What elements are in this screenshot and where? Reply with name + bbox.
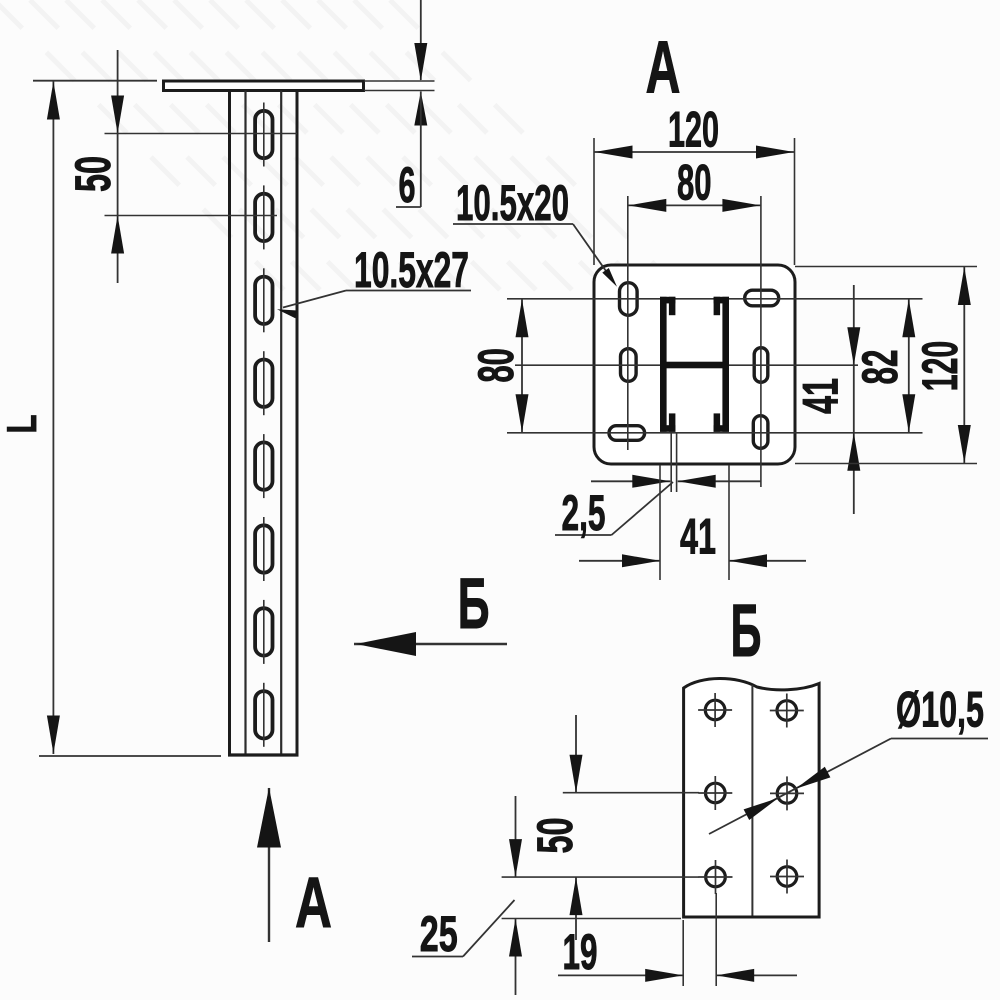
front view: 8 oblong slots 10.5x27	[255, 103, 272, 747]
dimension text 120 right	[911, 341, 968, 392]
view Б: six holes Ø10,5 with center marks	[698, 693, 804, 894]
svg-text:50: 50	[64, 156, 121, 192]
dimension 25 (bottom hole offset) with leader	[412, 796, 522, 995]
svg-text:10.5x20: 10.5x20	[456, 174, 569, 231]
view Б title	[731, 589, 762, 672]
label text 10.5x27	[354, 241, 469, 298]
svg-text:120: 120	[668, 101, 719, 158]
dimension 2,5 (wall thickness) with leader	[555, 433, 761, 535]
label text 10.5x20	[456, 174, 569, 231]
dimension 6 (plate thickness)	[364, 0, 435, 207]
dimension text 41 bottom	[680, 508, 716, 565]
dimension 82 (profile height)	[902, 299, 915, 433]
front view: vertical strut column	[228, 91, 299, 756]
dimension 120 (plate width, top)	[594, 138, 795, 265]
svg-text:82: 82	[851, 350, 908, 385]
label 10.5x27 leader	[277, 291, 471, 319]
dimension text 41 right	[792, 378, 849, 414]
svg-text:6: 6	[399, 156, 416, 213]
svg-text:19: 19	[563, 923, 598, 980]
dimension label L	[0, 415, 45, 434]
view A title	[646, 26, 681, 109]
svg-text:10.5x27: 10.5x27	[354, 241, 469, 298]
svg-text:L: L	[0, 415, 45, 434]
svg-text:41: 41	[792, 378, 849, 414]
section arrow Б (view direction)	[354, 632, 507, 656]
dimension text 80 left	[467, 348, 524, 383]
svg-text:Б: Б	[458, 565, 490, 644]
svg-text:А: А	[295, 864, 332, 943]
dimension text 50 (view Б)	[526, 818, 583, 854]
view Б: side plate outline with break line	[684, 678, 820, 917]
view A: mounting plate 120x120 outline	[594, 265, 795, 464]
svg-text:120: 120	[911, 341, 968, 392]
svg-text:80: 80	[677, 154, 712, 211]
section arrow А (view direction)	[257, 788, 281, 943]
dimension text 6	[399, 156, 416, 213]
dimension text Ø10,5	[896, 681, 984, 738]
view A: strut channel cross-section (welded profile)	[660, 297, 729, 432]
dimension 41 (profile width, bottom)	[579, 465, 806, 580]
dimension 19 (hole edge distance)	[558, 893, 797, 986]
dimension 50 (slot pitch, front view)	[105, 50, 298, 283]
dimension text 2,5	[562, 484, 606, 541]
dimension text 19	[563, 923, 598, 980]
dimension text 50 (front view)	[64, 156, 121, 192]
dimension 120 (plate height, right)	[795, 267, 977, 464]
dimension 41 (half profile height)	[847, 285, 860, 514]
svg-text:41: 41	[680, 508, 716, 565]
dimension text 120 top	[668, 101, 719, 158]
svg-text:80: 80	[467, 348, 524, 383]
svg-text:Ø10,5: Ø10,5	[896, 681, 984, 738]
dimension L (column length) with extension lines	[33, 81, 221, 756]
view Б: extension lines of hole rows and plate bottom	[502, 793, 699, 919]
dimension 50 (hole rows spacing, view Б)	[570, 715, 583, 940]
label 10.5x20 leader	[453, 224, 617, 287]
dimension text 80 top	[677, 154, 712, 211]
svg-text:Б: Б	[731, 589, 762, 672]
dimension text 82	[851, 350, 908, 385]
svg-text:2,5: 2,5	[562, 484, 606, 541]
dimension 80 (hole columns spacing, top)	[628, 199, 761, 212]
section letter А (arrow)	[295, 864, 332, 943]
dimension text 25	[420, 905, 458, 962]
svg-text:25: 25	[420, 905, 458, 962]
dimension Ø10,5 (hole diameter) with leader	[709, 739, 988, 835]
decorative watermark (not labelled further)	[0, 0, 690, 300]
front view: top plate (6 mm)	[164, 81, 364, 91]
dimension 80 (hole rows spacing, left of view A)	[516, 299, 529, 433]
svg-text:50: 50	[526, 818, 583, 854]
section letter Б (arrow)	[458, 565, 490, 644]
view A: centerlines of hole rows and columns	[507, 196, 923, 487]
view A: six oblong holes 10.5x20	[609, 283, 779, 449]
svg-text:А: А	[646, 26, 681, 109]
view Б: fold centerline	[751, 685, 753, 916]
